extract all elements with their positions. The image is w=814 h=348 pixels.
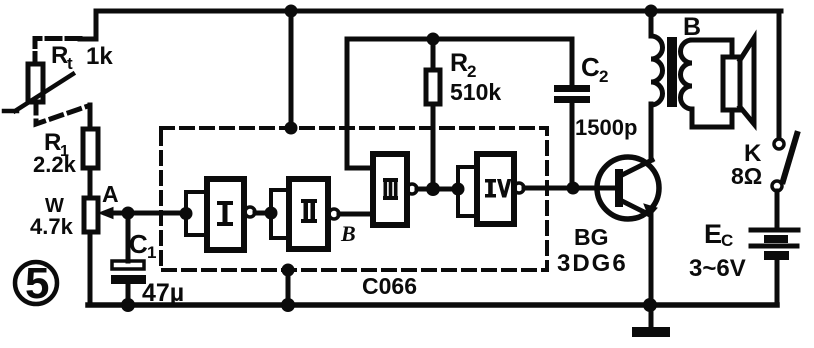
node A junction dot [122,207,135,220]
wire C2 top lead [570,39,575,85]
junction dot transformer primary on rail [645,5,658,18]
svg-text:2.2k: 2.2k [33,152,77,177]
wiper arrow of W [106,211,128,216]
wire R1 to W [88,168,93,198]
svg-text:1k: 1k [86,43,113,70]
svg-text:C: C [581,52,600,82]
capacitor C2 top plate [554,85,590,92]
svg-text:R: R [450,49,468,77]
svg-text:8Ω: 8Ω [731,163,762,189]
transistor emitter [622,201,650,215]
potentiometer W body [84,198,98,232]
ground [649,305,654,328]
switch K top contact [774,139,784,149]
wire dashed lead thermistor to R1 [36,102,88,124]
junction dot emitter on rail [643,298,657,312]
speaker horn [740,38,754,124]
wire IC supply [289,11,294,128]
wire W bottom to rail [88,232,93,305]
svg-text:1500p: 1500p [575,115,637,140]
gate U4 input bracket [458,167,477,216]
wire U3 to U4 [417,187,458,192]
svg-text:5: 5 [25,259,49,308]
junction dot top rail IC supply [285,5,298,18]
wire U1 to U2 [255,211,268,216]
battery Ec plate long 1 [751,228,798,233]
svg-text:C: C [129,229,148,259]
resistor R1 [83,129,98,168]
transformer core [667,37,677,107]
svg-text:R: R [51,42,68,69]
transistor base bar [615,169,623,207]
junction dot gate II input [265,207,278,220]
resistor R2 [426,70,440,104]
wire node A down to C1 [126,213,131,261]
wire top-left step [80,11,96,39]
capacitor C1 top plate [112,261,144,269]
wire secondary bottom to speaker [692,109,732,127]
junction dot R2 top [427,33,440,46]
junction dot IC ground on box [282,264,295,277]
svg-text:1: 1 [147,243,156,262]
inverter bubble U3 [407,184,417,194]
capacitor C2 bottom plate [554,96,590,103]
wire feedback left down [347,39,373,168]
wire node A to gate I [128,211,183,216]
thermistor diagonal [4,74,73,111]
svg-text:4.7k: 4.7k [30,214,74,239]
transistor collector [622,160,652,175]
wire top rail [96,9,781,14]
junction dot IC supply on box [285,122,298,135]
wire switch to battery [775,191,780,228]
wire R2 top lead [431,39,436,70]
resistor Rt [28,64,43,102]
junction dot R2 bottom [426,182,440,196]
wire R2 bottom lead [431,104,436,189]
IC C066 dashed box [161,128,547,270]
wire collector up [649,104,654,160]
svg-text:B: B [683,13,701,41]
battery Ec plate long 2 [751,244,797,249]
switch K lever [783,134,797,181]
inverter bubble U2 [329,209,339,219]
wire secondary top to speaker [692,40,732,57]
svg-text:C: C [721,231,733,250]
svg-text:t: t [67,54,73,73]
svg-text:A: A [102,181,119,207]
capacitor C1 bottom plate [111,275,146,284]
battery Ec plate short 2 [764,251,789,260]
wire emitter down [649,215,654,305]
wire IC ground stub [286,270,291,305]
wire U2 to gate III (node B) [339,212,373,217]
wire right rail (top) [777,11,782,138]
svg-text:B: B [340,221,356,246]
junction dot gate IV input [452,183,465,196]
svg-text:E: E [704,219,722,249]
inverter bubble U1 [245,207,255,217]
transformer primary winding [651,36,663,105]
junction dot base node [567,182,580,195]
wire U4 output to transistor base [524,186,615,191]
wire R1 top lead [88,105,93,129]
svg-text:510k: 510k [450,79,501,105]
wire feedback top [347,37,572,42]
switch K bottom contact [772,181,782,191]
wire dashed lead to thermistor [35,39,80,65]
wire bottom rail [88,302,777,308]
gate U2 input bracket [271,190,289,238]
inverter bubble U4 [514,183,524,193]
junction dot IC ground on rail [281,298,295,312]
junction dot gate I input [180,207,193,220]
gate U3 (inverter III) [373,154,407,225]
gate U2 (inverter II) [289,179,328,249]
transistor Q1 circle [597,157,659,219]
wire primary top lead [649,11,654,36]
gate U1 input bracket [186,192,207,235]
wire C1 to rail [126,284,131,305]
gate U4 (inverter IV) [477,154,514,224]
battery Ec plate short 1 [764,235,788,243]
transformer secondary winding [681,40,692,109]
svg-text:3DG6: 3DG6 [557,250,628,277]
speaker driver [723,57,740,110]
transistor emitter arrowhead [644,204,657,217]
svg-text:C066: C066 [362,273,417,299]
junction dot C1 on rail [121,298,135,312]
figure number 5 circled [15,262,57,304]
svg-text:BG: BG [574,224,609,250]
wire C2 bottom lead [570,103,575,188]
wire battery to rail [775,260,780,305]
gate U1 (inverter I) [207,179,244,250]
svg-text:3~6V: 3~6V [689,255,746,282]
svg-text:2: 2 [599,67,608,86]
